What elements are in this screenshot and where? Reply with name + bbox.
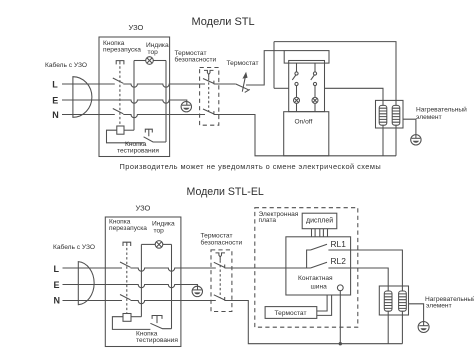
heater coil 2 [392,105,400,125]
on/off pole 2 contact top [313,72,316,75]
thermostat arrow [242,76,245,92]
wire coil to vertical (bottom) [131,316,141,318]
trip coil (bottom) [123,314,131,322]
thermostat blade [236,84,249,90]
svg-text:E: E [52,96,58,106]
svg-text:элемент: элемент [426,302,452,309]
wires board to thermostat box [317,295,332,315]
thermal element symbol [204,70,214,77]
RCD switch pole N blade [113,109,124,114]
svg-text:Производитель может не уведомл: Производитель может не уведомлять о смен… [120,162,382,171]
thermal element symbol (bottom) [216,253,226,260]
svg-text:RL2: RL2 [331,256,347,266]
svg-text:L: L [54,264,60,274]
mechanical link dashed (bottom safety thermostat) [219,260,221,297]
on/off switch body [289,61,325,112]
UZO (RCD) box (bottom) [105,217,181,347]
svg-text:безопасности: безопасности [201,238,243,246]
safety thermostat pole N blade [203,109,214,115]
relay RL2 blade [311,262,328,268]
wire E from cable to earth (bottom, hops) [63,285,198,290]
on/off pole 2 wire to lamp [314,86,316,98]
svg-text:L: L [52,80,58,90]
cable with RCD symbol (D-shape) [73,77,92,118]
mechanical link (dashed) of safety thermostat [208,78,210,112]
heater coil 1 bottom wire (bottom) [387,311,389,344]
heater coil 2 bottom wire (bottom) [401,311,403,344]
earth terminal of cable E [181,102,191,112]
svg-text:УЗО: УЗО [136,204,151,213]
wire from contact bus down to N wire [339,291,341,344]
wire A: top feed to heater coil 2 [274,42,396,106]
svg-text:Нагревательный: Нагревательный [416,105,467,113]
display box [302,213,337,229]
wire lamp to trip coil (bottom) [140,244,142,316]
svg-text:N: N [52,110,59,120]
junction dot [339,342,342,345]
svg-text:элемент: элемент [416,114,442,121]
svg-text:Кабель с УЗО: Кабель с УЗО [53,243,95,251]
on/off pole 1 blade [292,75,295,80]
svg-text:E: E [54,280,60,290]
relay RL1 input stub [307,250,311,268]
on/off pole 2 blade [311,75,314,80]
cable with RCD symbol (bottom) [78,262,94,305]
test button blade (bottom) [150,323,171,328]
indicator lamp [146,57,154,65]
earth terminal of heater (bottom) [418,322,429,333]
indicator lamp wire left (bottom) [141,243,155,245]
wire heater to earth (bottom) [409,304,424,326]
test button blade [144,137,166,142]
svg-text:перезапуска: перезапуска [103,47,141,54]
svg-text:N: N [54,296,61,306]
svg-text:тор: тор [154,227,165,234]
wire heater to earth [403,119,416,138]
relay RL2 output wire to heater coil 1 [328,268,388,291]
UZO (RCD) box [99,37,170,157]
svg-text:RL1: RL1 [331,239,347,249]
restart button actuator (bottom) [123,242,131,246]
safety thermostat pole L blade [203,79,214,85]
on/off pole 2 contact bottom [313,82,316,85]
svg-text:Модели STL: Модели STL [192,16,255,28]
svg-text:On/off: On/off [295,119,313,126]
wire L from safety thermostat to room thermostat [214,83,236,85]
on/off pole 2 wire bottom [314,103,316,111]
safety thermostat pole L blade (bottom) [214,262,225,268]
wire lamp to N and test switch (bottom) [171,244,173,328]
wire B from on/off body to heater coil 1 [325,88,384,105]
svg-text:Контактная: Контактная [298,275,333,282]
relay RL1 output wire to heater coil 2 [328,250,402,291]
svg-text:Модели STL-EL: Модели STL-EL [187,186,264,198]
svg-text:плата: плата [259,217,277,224]
wire N from RCD to safety thermostat (hop at x140.6) [131,301,216,304]
contact bus terminal circle [337,285,343,291]
trip coil of RCD [117,126,124,134]
test button actuator [145,129,152,136]
svg-text:Индика: Индика [146,42,169,49]
heating element box [376,100,404,128]
svg-text:тестирования: тестирования [117,148,159,155]
on/off lower box [284,112,329,156]
relay RL1 blade [311,244,328,250]
wire loop from coil to test button [107,130,145,143]
test button actuator (bottom) [152,316,162,324]
wire N from cable to RCD switch (bottom) [63,300,123,302]
svg-text:Термостат: Термостат [227,60,259,67]
svg-text:перезапуска: перезапуска [109,225,147,232]
on/off pole 1 wire to lamp [296,86,298,98]
RCD pole L blade (bottom) [120,262,131,267]
restart button actuator [116,61,124,65]
svg-text:Индика: Индика [152,220,175,227]
earth terminal of heater [411,135,421,145]
heater coil 1 bottom wire [382,125,384,156]
wire joining A and B [273,42,275,89]
on/off pole 1 lamp [294,97,300,103]
svg-text:Кабель с УЗО: Кабель с УЗО [45,61,87,69]
safety thermostat box (dashed) [200,68,219,126]
electronic board rectangle [286,237,351,295]
wire loop coil to test button (bottom) [112,317,150,330]
wire L from cable to RCD switch (bottom) [63,267,123,269]
wire E from cable to earth (hops at x134,x166) [62,100,187,105]
heater coil 1 (bottom) [384,291,392,311]
on/off pole 2 lamp [312,97,318,103]
svg-text:УЗО: УЗО [129,23,144,32]
heater coil 1 [379,105,387,125]
safety thermostat box dashed (bottom) [211,250,232,312]
safety thermostat pole N blade (bottom) [214,295,225,301]
on/off pole 1 contact bottom [295,82,298,85]
RCD switch pole L blade [113,78,124,83]
on/off pole 1 contact top [295,72,298,75]
heating element box (bottom) [379,286,408,315]
wire from lamp down to N and test switch [165,61,167,143]
indicator lamp wire right [153,60,166,62]
svg-text:дисплей: дисплей [306,217,333,225]
wire N from RCD switch to safety thermostat (hop at x134) [123,115,205,118]
wire from thermostat up to on/off switch [246,51,284,85]
thermostat blade end tick [245,89,250,92]
wire coil to vertical [124,129,134,131]
heater coil 2 (bottom) [399,291,407,311]
wire L from cable to RCD switch [62,83,115,85]
wire L from RCD to safety thermostat (hops at x140.6,x171.5) [131,268,216,271]
wire B left stub to on/off body [274,87,289,89]
wire L from RCD switch to safety thermostat (hops at x134,x166) [123,84,205,87]
svg-text:тестирования: тестирования [136,337,178,344]
svg-text:тор: тор [148,49,159,56]
wire N from safety thermostat down and along bottom to heater [214,115,396,156]
RCD pole N blade (bottom) [120,295,131,300]
wire from lamp down to trip coil [133,61,135,131]
on/off pole 2 wire top [314,63,316,72]
on/off pole 1 wire bottom [296,103,298,111]
indicator lamp (bottom) [155,241,163,249]
mechanical link (dashed) of RCD [119,66,121,126]
wire N from cable to RCD switch [62,114,115,116]
wire L from safety thermostat to electronic board [225,267,311,269]
thermostat box (bottom) [265,307,317,319]
display pins [312,229,328,237]
svg-text:шина: шина [311,284,328,291]
svg-text:Термостат: Термостат [275,310,307,317]
mechanical link dashed (bottom RCD) [126,248,128,314]
indicator lamp wire left [134,60,146,62]
on/off switch top tab [284,51,329,64]
wire N from safety thermostat down along bottom to heater [225,301,403,344]
indicator lamp wire right (bottom) [163,243,172,245]
earth terminal of cable E (bottom) [192,286,202,296]
heater coil 2 bottom wire [395,125,397,156]
on/off pole 1 wire top [296,63,298,72]
electronic board outer box (dashed) [255,208,358,328]
svg-text:безопасности: безопасности [175,56,217,64]
